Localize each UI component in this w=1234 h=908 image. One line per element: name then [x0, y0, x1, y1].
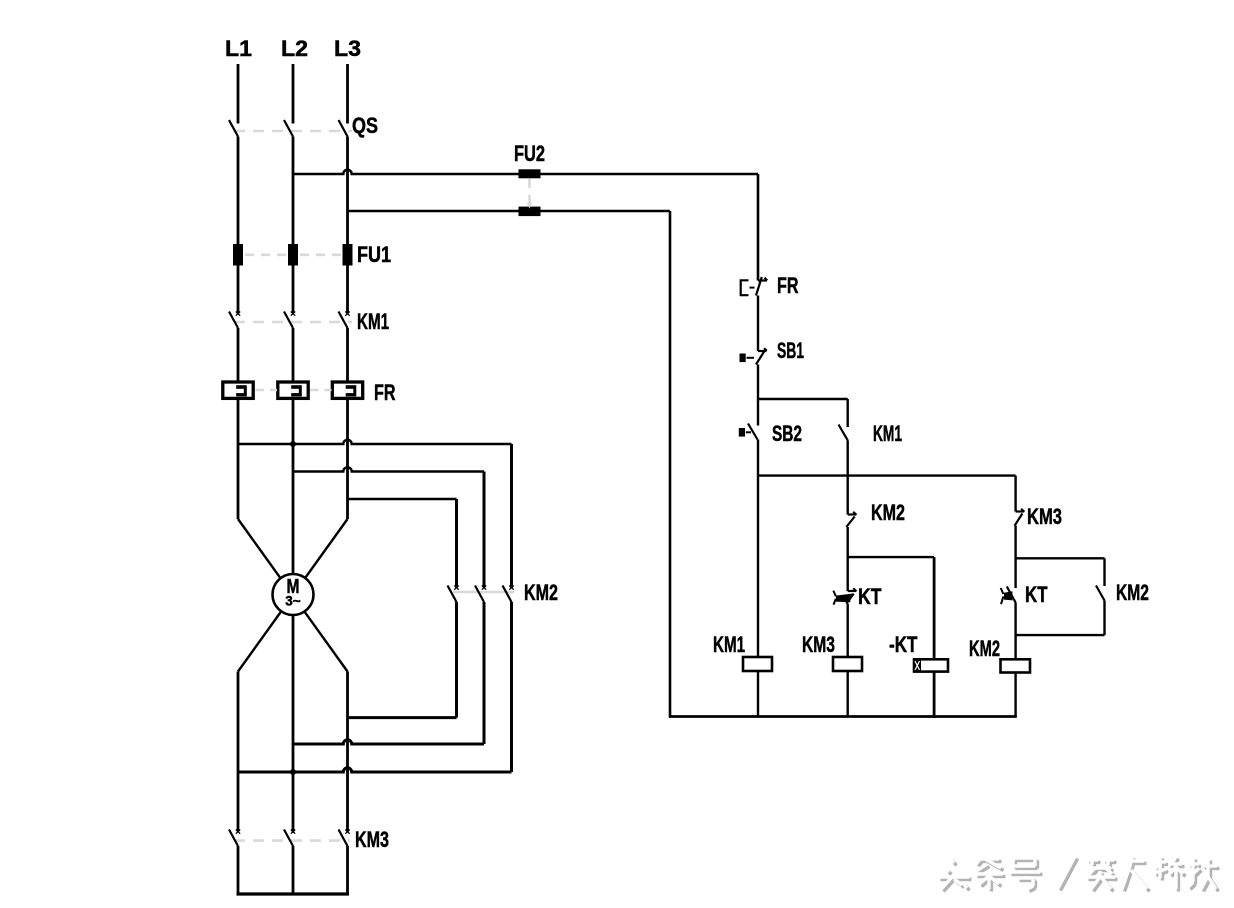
thermal relay FR element pole 2 — [278, 382, 308, 398]
wire loop C bottom — [348, 716, 457, 719]
contactor KM3 main pole 3 — [339, 830, 348, 847]
wire L2 QS-FU1 — [292, 137, 295, 245]
wire L3 drop — [346, 64, 349, 124]
wire KT coil branch h — [848, 556, 934, 558]
wire SB2-node — [757, 440, 759, 476]
watermark 号 — [1016, 859, 1038, 862]
svg-text:KM1: KM1 — [873, 421, 902, 446]
wire selfhold branch top — [758, 398, 848, 400]
timer contact KT delayed close — [848, 590, 857, 592]
disconnector QS pole 2 — [284, 120, 293, 137]
contactor KM1 main pole 3 — [339, 312, 348, 329]
wire KM3aux drop — [1014, 476, 1016, 512]
fuse FU1 pole 2 — [288, 244, 298, 266]
thermal relay FR element pole 3 — [332, 382, 362, 398]
disconnector QS pole 1 — [229, 120, 238, 137]
wire KM3 pole3 lower — [346, 846, 349, 894]
wire KM2 pole3 upper — [510, 444, 513, 588]
svg-text:FU1: FU1 — [357, 242, 391, 267]
svg-text:L1: L1 — [225, 36, 252, 61]
svg-text:L3: L3 — [334, 36, 361, 61]
wire KTcoil-bus — [933, 672, 936, 718]
wire L1 FR-bend — [237, 398, 240, 519]
contact KM1 aux — [839, 425, 848, 441]
wire KM3aux-KT — [1014, 526, 1016, 588]
watermark 条 — [979, 859, 985, 867]
wire KM2NC lower — [1103, 601, 1105, 636]
wire KT coil drop — [933, 557, 936, 659]
wire control feed top — [293, 170, 758, 174]
wire KT-KM3coil — [847, 604, 849, 657]
contact KM3 aux — [1016, 510, 1025, 512]
watermark 荣 — [1090, 861, 1101, 864]
wire lower left vertical — [237, 672, 240, 832]
wire KM2aux drop — [847, 476, 849, 515]
watermark slash — [1061, 859, 1078, 891]
wire KM3 pole2 lower — [292, 846, 295, 894]
wire L1 drop — [237, 64, 240, 124]
svg-text:3~: 3~ — [285, 594, 301, 609]
wire control feed bottom — [348, 210, 671, 213]
coil KM3 — [833, 657, 862, 671]
wire KM1aux-node — [847, 440, 849, 475]
wire control vertical drop — [757, 174, 760, 281]
svg-text:-KT: -KT — [889, 632, 918, 657]
svg-text:KM2: KM2 — [1116, 580, 1149, 605]
thermal contact FR — [758, 279, 767, 281]
svg-text:KM2: KM2 — [524, 580, 558, 605]
contactor KM1 main pole 2 — [284, 312, 293, 329]
wire control bottom bus — [669, 715, 1017, 718]
wire L1 QS-FU1 — [237, 137, 240, 245]
junction dot B — [290, 769, 296, 775]
wire KM2NC drop — [1103, 558, 1105, 586]
svg-text:KM3: KM3 — [355, 827, 389, 852]
wire L2 FR-motor — [292, 398, 295, 833]
contactor KM2 main pole 1 — [448, 586, 457, 603]
wire L2 KM1-FR — [292, 328, 295, 382]
watermark 科 — [1157, 863, 1169, 866]
wire star bus — [237, 892, 350, 895]
wire KM2 pole1 lower — [455, 602, 458, 718]
disconnector QS pole 3 — [339, 120, 348, 137]
coil KT — [914, 659, 948, 671]
wire L1 FU1-KM1 — [237, 266, 240, 314]
KM3 linkage dashed — [234, 839, 350, 842]
wire motor diagonal L1 — [238, 519, 348, 672]
svg-text:KT: KT — [1025, 582, 1048, 607]
svg-text:KM1: KM1 — [357, 309, 389, 334]
wire KT-junction — [1014, 603, 1016, 660]
wire KM2 pole3 lower — [510, 602, 513, 772]
wire loop B bottom — [293, 740, 484, 744]
svg-text:KM2: KM2 — [969, 636, 1000, 661]
thermal relay FR element pole 1 — [223, 382, 253, 398]
FU2 linkage dashed — [528, 179, 531, 203]
QS linkage dashed — [234, 130, 352, 133]
wire loop B top — [293, 467, 484, 471]
svg-text:QS: QS — [352, 113, 378, 138]
wire L1 KM1-FR — [237, 328, 240, 382]
svg-text:KM3: KM3 — [1027, 504, 1062, 529]
KM1 linkage dashed — [234, 321, 352, 324]
wire L2 FU1-KM1 — [292, 266, 295, 314]
timer contact KT delayed open — [1007, 587, 1016, 603]
svg-text:KT: KT — [858, 584, 882, 609]
wire KM2NC return — [1016, 634, 1105, 636]
wire KM2coil-bus — [1014, 673, 1016, 717]
wire loop A top — [238, 440, 512, 444]
wire lower right vertical — [346, 672, 349, 832]
FU1 linkage dashed — [245, 254, 286, 257]
watermark 头 — [953, 861, 957, 866]
svg-text:KM2: KM2 — [871, 500, 905, 525]
svg-text:FR: FR — [777, 273, 799, 298]
wire loop C top — [348, 498, 457, 500]
watermark 久 — [1133, 859, 1135, 869]
wire KM1 coil-bus — [757, 671, 759, 717]
wire L3 QS-FU1 — [346, 137, 349, 245]
contactor KM3 main pole 2 — [284, 830, 293, 847]
wire KM3 pole1 lower — [237, 846, 240, 894]
svg-text:SB1: SB1 — [777, 338, 804, 363]
wire left return vertical — [669, 211, 672, 717]
svg-text:FU2: FU2 — [514, 141, 545, 166]
motor M1 circle — [273, 574, 314, 615]
wire KM3coil-bus — [847, 671, 849, 717]
watermark 技 — [1191, 865, 1202, 868]
svg-text:FR: FR — [374, 380, 396, 405]
coil KM1 — [743, 657, 772, 671]
svg-text:SB2: SB2 — [772, 421, 802, 446]
contactor KM3 main pole 1 — [229, 830, 238, 847]
wire L2 drop — [292, 64, 295, 124]
wire KM2aux-KT — [847, 527, 849, 591]
fuse FU1 pole 3 — [343, 244, 353, 266]
wire KM2 pole2 upper — [483, 472, 486, 588]
coil KM2 — [1001, 659, 1031, 672]
wire SB1-branch — [757, 365, 759, 426]
svg-text:KM3: KM3 — [802, 632, 835, 657]
wire KM2NC branch h — [1016, 557, 1105, 559]
wire L3 FR-bend — [346, 398, 349, 519]
wire L3 FU1-KM1 — [346, 266, 349, 314]
FR linkage dashed — [256, 389, 278, 392]
contactor KM2 main pole 2 — [475, 586, 484, 603]
contactor KM2 main pole 3 — [503, 586, 512, 603]
stop button SB1 — [758, 350, 767, 352]
wire selfhold drop — [847, 399, 849, 427]
fuse FU2 bottom — [519, 207, 541, 217]
wire KM2 pole1 upper — [455, 499, 458, 588]
contact KM2 NC — [1096, 586, 1105, 601]
svg-text:KM1: KM1 — [713, 632, 745, 657]
junction dot A — [290, 441, 296, 447]
wire node bus — [758, 474, 1016, 476]
wire motor diagonal L3 — [238, 519, 348, 672]
wire L3 KM1-FR — [346, 328, 349, 382]
wire FR-SB1 — [757, 296, 759, 352]
fuse FU1 pole 1 — [233, 244, 243, 266]
start button SB2 — [748, 424, 758, 440]
contact KM2 aux — [848, 513, 857, 515]
wire loop A bottom — [238, 768, 512, 772]
svg-text:L2: L2 — [281, 36, 308, 61]
wire KM2 pole2 lower — [483, 602, 486, 744]
contactor KM1 main pole 1 — [229, 312, 238, 329]
wire KM1 coil drop — [757, 476, 759, 657]
KM2 main linkage — [453, 591, 514, 594]
fuse FU2 top — [519, 169, 541, 178]
